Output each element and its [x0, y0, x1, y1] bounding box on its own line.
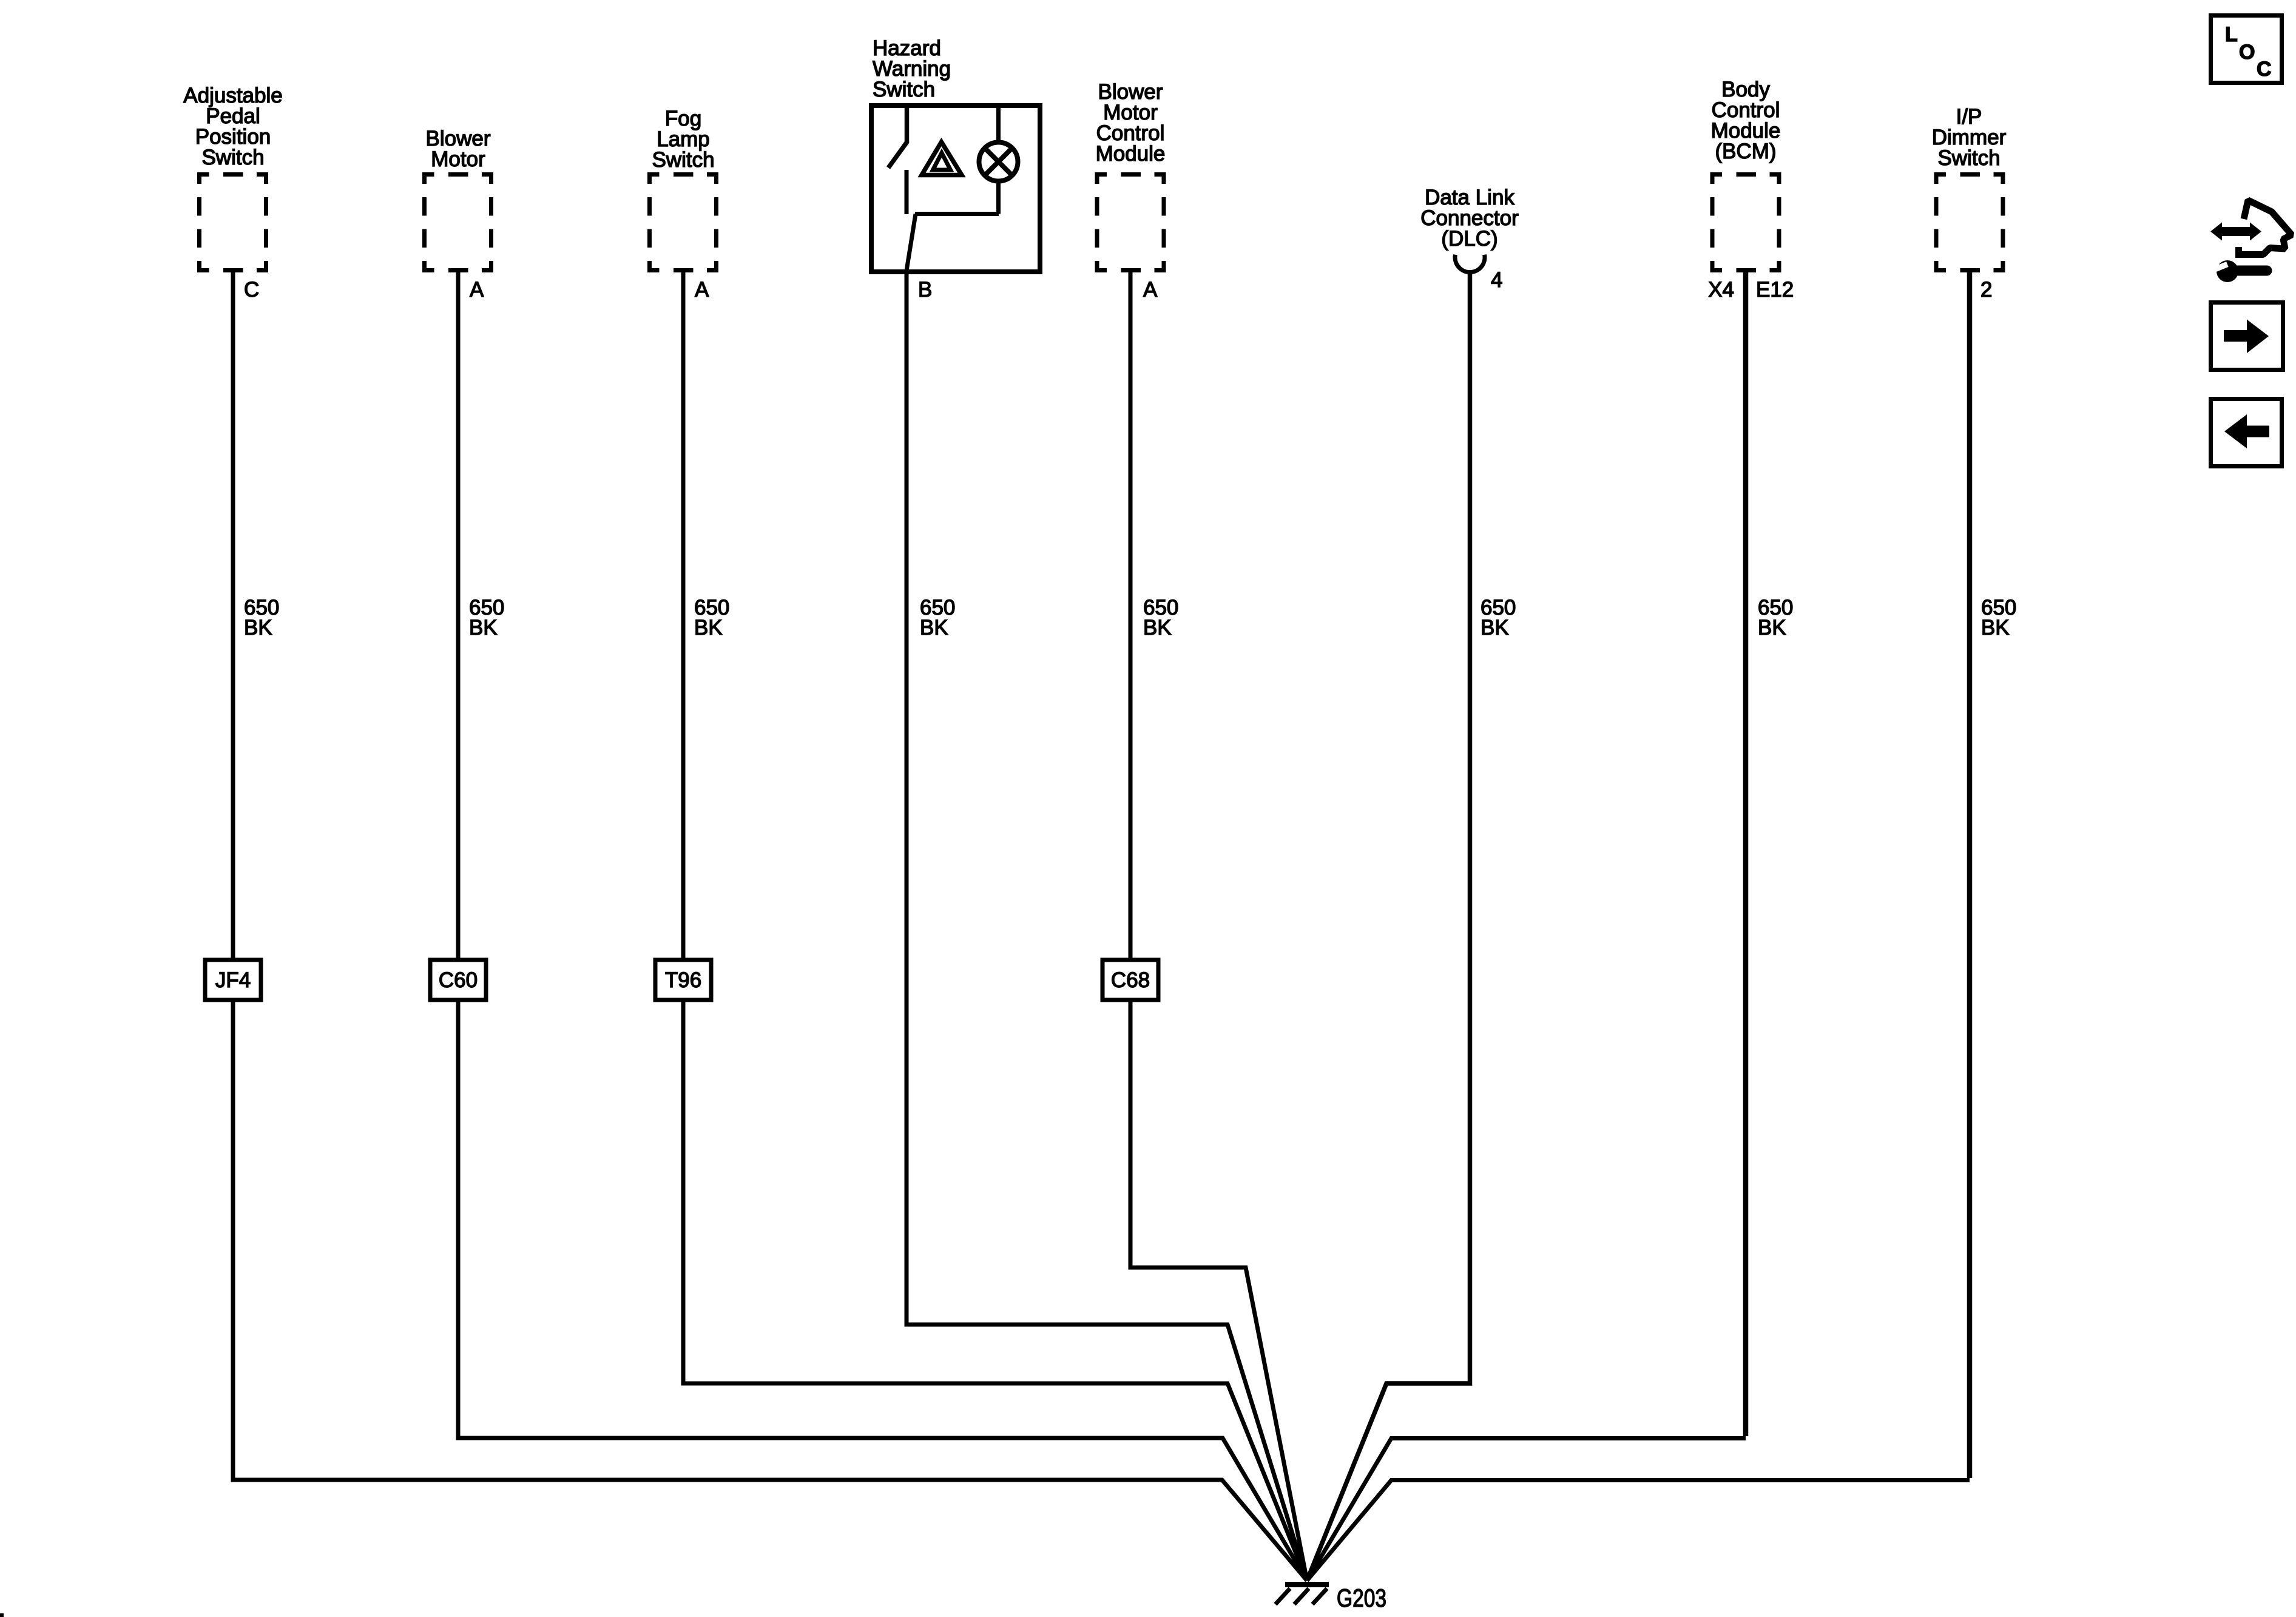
svg-text:BK: BK — [1481, 616, 1509, 640]
label Data Link Connector (DLC) — [1420, 186, 1519, 251]
svg-text:4: 4 — [1491, 268, 1502, 292]
ground hatch 2 — [1294, 1588, 1309, 1604]
svg-text:(DLC): (DLC) — [1441, 227, 1497, 251]
forward arrow box — [2211, 303, 2283, 370]
svg-text:X4: X4 — [1708, 278, 1734, 302]
wire 7: 650 BK from BCM to G203 — [1307, 268, 1746, 1581]
service icon: double arrow — [2210, 223, 2261, 241]
wire 6 label 650 BK — [1481, 596, 1516, 640]
svg-text:BK: BK — [1981, 616, 2010, 640]
back arrow box — [2211, 399, 2282, 467]
svg-text:A: A — [695, 278, 709, 302]
LOC reference box (top right) — [2211, 16, 2282, 83]
svg-text:C60: C60 — [439, 968, 478, 992]
svg-text:BK: BK — [694, 616, 723, 640]
label Fog Lamp Switch — [652, 107, 714, 172]
wire 5 label 650 BK — [1143, 596, 1178, 640]
in-line connector T96 — [655, 960, 711, 1000]
wire 6: 650 BK from DLC to G203 — [1307, 271, 1470, 1581]
service icon: wrench handle — [2234, 266, 2267, 276]
ground G203 bar — [1285, 1582, 1329, 1587]
svg-text:G203: G203 — [1337, 1584, 1386, 1612]
wire 4 label 650 BK — [920, 596, 955, 640]
svg-text:JF4: JF4 — [215, 968, 251, 992]
label Body Control Module (BCM) — [1711, 78, 1781, 163]
connector dashed box: Blower Motor Control Module — [1095, 172, 1166, 272]
switch top terminal and blade — [888, 106, 907, 168]
svg-text:BK: BK — [469, 616, 498, 640]
switch lower terminal — [905, 170, 909, 214]
connector dashed box: Blower Motor — [422, 172, 493, 272]
hazard triangle outer — [922, 142, 962, 175]
label Blower Motor — [426, 127, 491, 171]
wire 7 label 650 BK — [1758, 596, 1793, 640]
page corner mark — [0, 1613, 4, 1617]
svg-text:A: A — [470, 278, 484, 302]
lamp X stroke 2 — [985, 148, 1012, 175]
svg-text:BK: BK — [920, 616, 948, 640]
service icon: part outline — [2235, 200, 2292, 255]
label I/P Dimmer Switch — [1932, 105, 2007, 170]
wire 2 label 650 BK — [469, 596, 504, 640]
connector dashed box: Adjustable Pedal Position Switch — [197, 172, 268, 272]
wire 8 label 650 BK — [1981, 596, 2016, 640]
svg-text:Switch: Switch — [1937, 146, 2000, 170]
connector dashed box: I/P Dimmer Switch — [1934, 172, 2005, 272]
svg-text:E12: E12 — [1756, 278, 1794, 302]
svg-text:A: A — [1143, 278, 1158, 302]
connector dashed box: Fog Lamp Switch — [647, 172, 718, 272]
lamp bottom lead — [996, 180, 1001, 214]
in-line connector C68 — [1102, 960, 1158, 1000]
label Adjustable Pedal Position Switch — [183, 84, 282, 169]
label Hazard Warning Switch — [873, 36, 951, 101]
back arrow — [2224, 414, 2269, 448]
svg-text:Module: Module — [1096, 142, 1166, 166]
wire 1 label 650 BK — [244, 596, 279, 640]
indicator lamp circle — [979, 143, 1018, 181]
svg-text:BK: BK — [244, 616, 272, 640]
label Blower Motor Control Module — [1096, 80, 1166, 166]
component box: Hazard Warning Switch — [871, 106, 1040, 272]
wire 4: 650 BK from Hazard Warning Switch to G203 — [907, 272, 1307, 1581]
in-line connector C60 — [430, 960, 486, 1000]
svg-text:BK: BK — [1143, 616, 1172, 640]
internal slanted wire to pin B — [907, 214, 916, 271]
service icon: wrench jaw notch — [2211, 262, 2229, 273]
svg-text:(BCM): (BCM) — [1715, 140, 1776, 163]
wire 8: 650 BK from I/P Dimmer Switch to G203 — [1307, 268, 1970, 1581]
wire 2: 650 BK from Blower Motor to G203 — [458, 268, 1307, 1581]
in-line connector JF4 — [205, 960, 261, 1000]
svg-text:B: B — [918, 278, 932, 302]
lamp top lead — [996, 106, 1001, 143]
svg-text:C68: C68 — [1111, 968, 1150, 992]
svg-text:2: 2 — [1980, 278, 1992, 302]
service icon: wrench jaw — [2217, 260, 2238, 282]
connector dashed box: Body Control Module — [1710, 172, 1781, 272]
ground hatch 1 — [1275, 1588, 1290, 1604]
svg-text:C: C — [244, 278, 259, 302]
hazard triangle inner — [933, 153, 951, 170]
svg-text:C: C — [2257, 58, 2272, 81]
DLC connector half-circle symbol — [1455, 255, 1485, 272]
svg-text:O: O — [2239, 41, 2255, 64]
svg-text:Switch: Switch — [201, 146, 264, 169]
wire 3: 650 BK from Fog Lamp Switch to G203 — [683, 268, 1307, 1581]
forward arrow — [2224, 320, 2269, 354]
ground hatch 3 — [1312, 1588, 1327, 1604]
wire 3 label 650 BK — [694, 596, 729, 640]
svg-text:T96: T96 — [665, 968, 701, 992]
internal horizontal wire to lamp — [915, 212, 999, 216]
svg-text:Motor: Motor — [431, 147, 485, 171]
wire 5: 650 BK from Blower Motor Control Module to G203 — [1130, 268, 1307, 1581]
wire 1: 650 BK from Adjustable Pedal Position Switch to G203 — [233, 268, 1307, 1581]
svg-text:L: L — [2225, 23, 2238, 46]
lamp X stroke 1 — [985, 148, 1012, 175]
svg-text:BK: BK — [1758, 616, 1786, 640]
svg-text:Switch: Switch — [652, 148, 714, 172]
svg-text:Switch: Switch — [873, 78, 935, 101]
